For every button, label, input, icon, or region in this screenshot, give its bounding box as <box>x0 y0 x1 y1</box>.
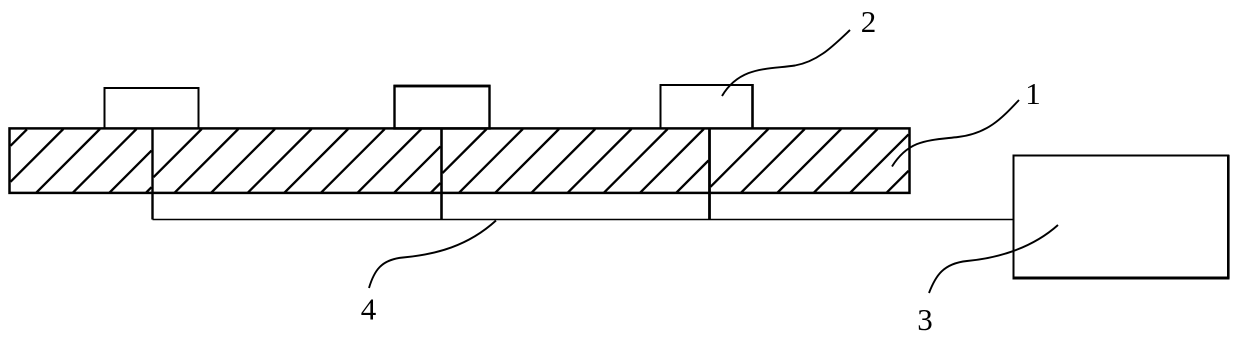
bottom layer 4 lower edge and connecting line to box 3 <box>153 219 1014 221</box>
control box 3 thick bottom edge <box>1013 277 1230 280</box>
svg-text:2: 2 <box>861 4 877 39</box>
hatched substrate bar 1 (outline) <box>10 128 910 193</box>
top block A (left component 2) <box>105 88 199 129</box>
leader line to label 3 <box>929 225 1058 293</box>
leader line to label 2 <box>722 30 850 96</box>
top block B (middle component 2) <box>395 86 490 129</box>
svg-text:4: 4 <box>361 292 377 327</box>
top block B thick top edge <box>394 85 491 88</box>
top block C thick right edge <box>751 84 754 129</box>
top block C (right component 2) <box>661 85 753 129</box>
section divider line middle <box>440 128 443 219</box>
leader line to label 1 <box>892 100 1019 167</box>
control box 3 <box>1014 156 1229 279</box>
control box 3 thick right edge <box>1227 155 1230 279</box>
svg-text:1: 1 <box>1025 76 1041 111</box>
leader line to label 4 <box>369 221 496 289</box>
hatch lines of substrate bar <box>11 129 909 193</box>
svg-text:3: 3 <box>917 302 933 337</box>
section divider line right <box>708 128 711 219</box>
section divider line left <box>151 128 153 219</box>
